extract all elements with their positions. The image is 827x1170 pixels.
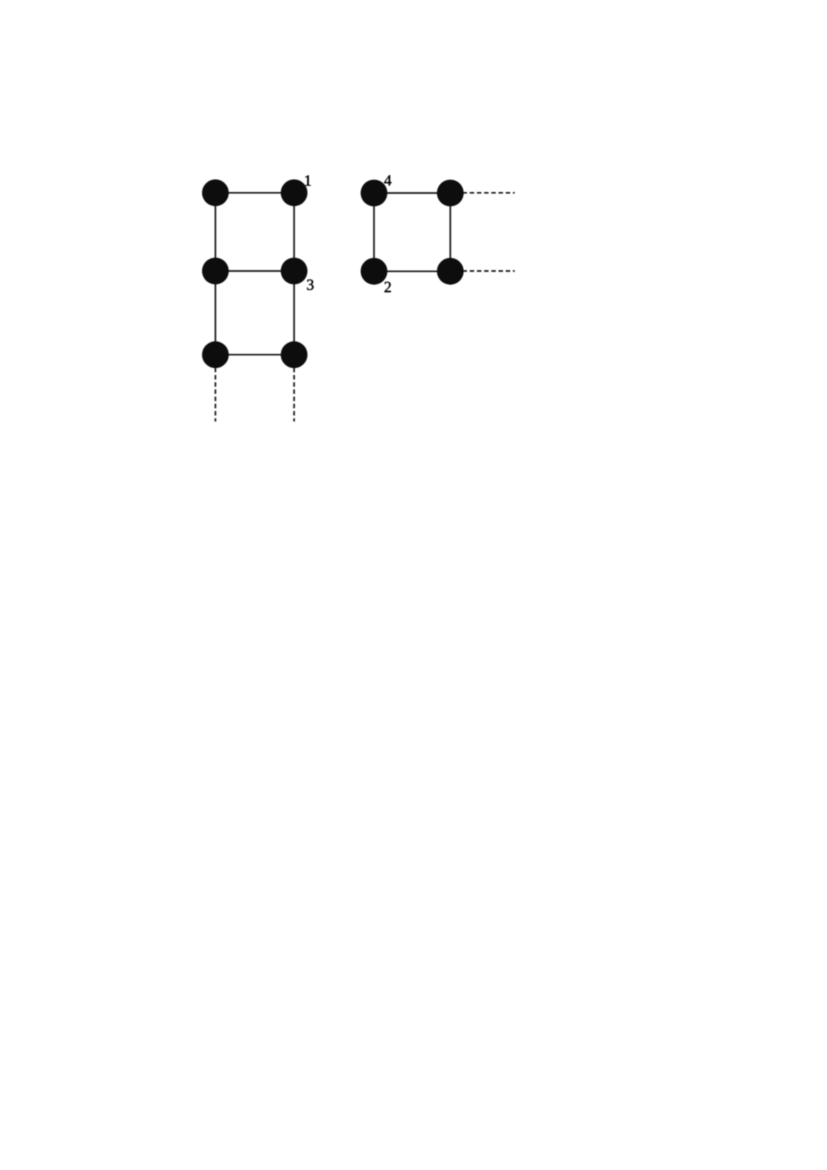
node: ladder bottom-right vertex (281, 341, 308, 368)
wire: ladder top rung (215, 192, 294, 194)
wire: ladder bottom rung (215, 354, 294, 356)
node: square bottom-right vertex (437, 258, 464, 285)
wire: square right edge (449, 193, 451, 271)
wire: dashed continuation right of square top (463, 192, 515, 194)
wire: square top edge (374, 192, 450, 194)
label: node number 4 (384, 175, 391, 185)
wire: ladder left rail lower segment (214, 271, 216, 355)
wire: ladder left rail upper segment (214, 193, 216, 271)
wire: dashed continuation below ladder left rail (214, 368, 216, 422)
node: square top-right vertex (437, 180, 464, 207)
node: square top-left vertex (labelled 4) (361, 180, 388, 207)
node: ladder middle-left vertex (202, 258, 229, 285)
wire: dashed continuation right of square bottom (463, 270, 515, 272)
wire: dashed continuation below ladder right rail (293, 368, 295, 422)
label: node number 3 (307, 280, 313, 290)
node: ladder top-right vertex (labelled 1) (281, 179, 308, 206)
node: ladder bottom-left vertex (202, 341, 229, 368)
wire: ladder middle rung (215, 270, 294, 272)
label: node number 2 (385, 282, 391, 292)
wire: square bottom edge (374, 270, 450, 272)
wire: ladder right rail upper segment (293, 193, 295, 271)
node: ladder middle-right vertex (labelled 3) (281, 258, 308, 285)
wire: square left edge (373, 193, 375, 271)
node: square bottom-left vertex (labelled 2) (361, 258, 388, 285)
node: ladder top-left vertex (202, 179, 229, 206)
label: node number 1 (305, 175, 310, 185)
wire: ladder right rail lower segment (293, 271, 295, 355)
